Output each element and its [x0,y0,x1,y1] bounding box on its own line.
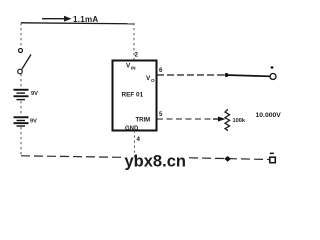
svg-text:10.000V: 10.000V [256,112,282,119]
svg-text:4: 4 [137,136,141,143]
svg-text:9V: 9V [31,91,38,97]
svg-text:IN: IN [131,65,136,70]
svg-text:1.1mA: 1.1mA [73,15,99,24]
svg-text:2: 2 [135,52,139,59]
svg-text:TRIM: TRIM [136,118,151,124]
svg-text:O: O [151,78,155,83]
svg-text:5: 5 [159,111,163,118]
svg-text:REF 01: REF 01 [122,92,144,99]
svg-text:GND: GND [125,126,139,132]
svg-text:ybx8.cn: ybx8.cn [125,153,186,171]
svg-text:100k: 100k [233,118,246,124]
svg-text:6: 6 [159,67,163,74]
svg-text:9V: 9V [30,119,37,125]
